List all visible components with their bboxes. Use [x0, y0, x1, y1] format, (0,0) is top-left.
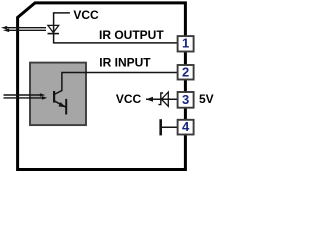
svg-text:1: 1	[182, 36, 189, 51]
module outline U1 (beveled package border)	[18, 3, 186, 170]
LED D1 (IR emitter diode) triangle	[48, 25, 59, 32]
phototransistor Q1 collector wire to pin 2 (IR INPUT net)	[54, 73, 178, 95]
phototransistor Q1 emitter with arrow	[54, 101, 66, 108]
svg-text:4: 4	[182, 119, 190, 134]
svg-text:3: 3	[182, 92, 189, 107]
svg-text:VCC: VCC	[73, 8, 99, 22]
wire VCC stub through LED D1 to pin 1 (IR OUTPUT net)	[54, 13, 178, 43]
zener diode D2 triangle	[161, 92, 168, 106]
pin box 3	[178, 92, 194, 108]
arrow to VCC label	[146, 97, 153, 102]
received IR ray upper	[4, 94, 41, 96]
zener diode D2 bent cathode bar	[158, 93, 163, 105]
emitted IR ray upper	[7, 27, 47, 29]
wire pin 3 to zener D2 (VCC net)	[146, 98, 178, 100]
capacitor plate stub at pin 4	[159, 119, 162, 135]
svg-text:5V: 5V	[199, 92, 214, 106]
svg-text:IR OUTPUT: IR OUTPUT	[99, 28, 164, 42]
emitted IR ray lower	[9, 29, 47, 31]
phototransistor Q1 base bar	[53, 91, 55, 103]
detector can (gray box)	[30, 63, 86, 126]
pin box 4	[178, 120, 194, 135]
svg-text:IR INPUT: IR INPUT	[99, 55, 151, 69]
received IR ray lower	[4, 97, 43, 99]
phototransistor Q1 emitter lead stub	[65, 99, 67, 115]
svg-text:2: 2	[182, 64, 189, 79]
svg-text:VCC: VCC	[116, 92, 142, 106]
LED D1 cathode bar	[48, 33, 60, 35]
pin box 1	[178, 36, 194, 51]
pin box 2	[178, 65, 194, 80]
wire pin 4 stub	[162, 126, 178, 128]
